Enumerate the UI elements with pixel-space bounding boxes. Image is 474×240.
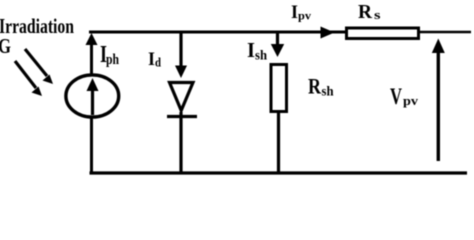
svg-text:sh: sh [255,49,267,64]
svg-text:V: V [390,84,402,109]
svg-text:sh: sh [322,85,334,100]
diode D1 [167,32,197,172]
svg-text:ph: ph [106,52,119,68]
Vpv measurement arrow [432,39,445,162]
svg-text:R: R [358,1,373,23]
svg-text:G: G [0,34,11,58]
top rail wire right of Rs [419,31,471,34]
Ipv current arrow on top rail [321,27,335,39]
svg-text:pv: pv [403,93,419,108]
svg-text:I: I [291,2,298,23]
series resistor Rs [347,28,419,39]
irradiation arrow 1 [25,49,53,84]
top rail wire [89,31,346,34]
svg-text:d: d [155,55,162,70]
current source U1 Iph [66,33,119,172]
shunt resistor Rsh [271,32,287,172]
irradiation arrow 2 [15,61,42,96]
svg-text:Irradiation: Irradiation [0,14,74,38]
svg-text:I: I [148,49,155,70]
svg-text:R: R [308,74,322,99]
svg-text:pv: pv [298,11,311,23]
svg-text:I: I [247,38,255,62]
svg-text:s: s [374,7,381,22]
bottom rail wire [90,171,468,174]
